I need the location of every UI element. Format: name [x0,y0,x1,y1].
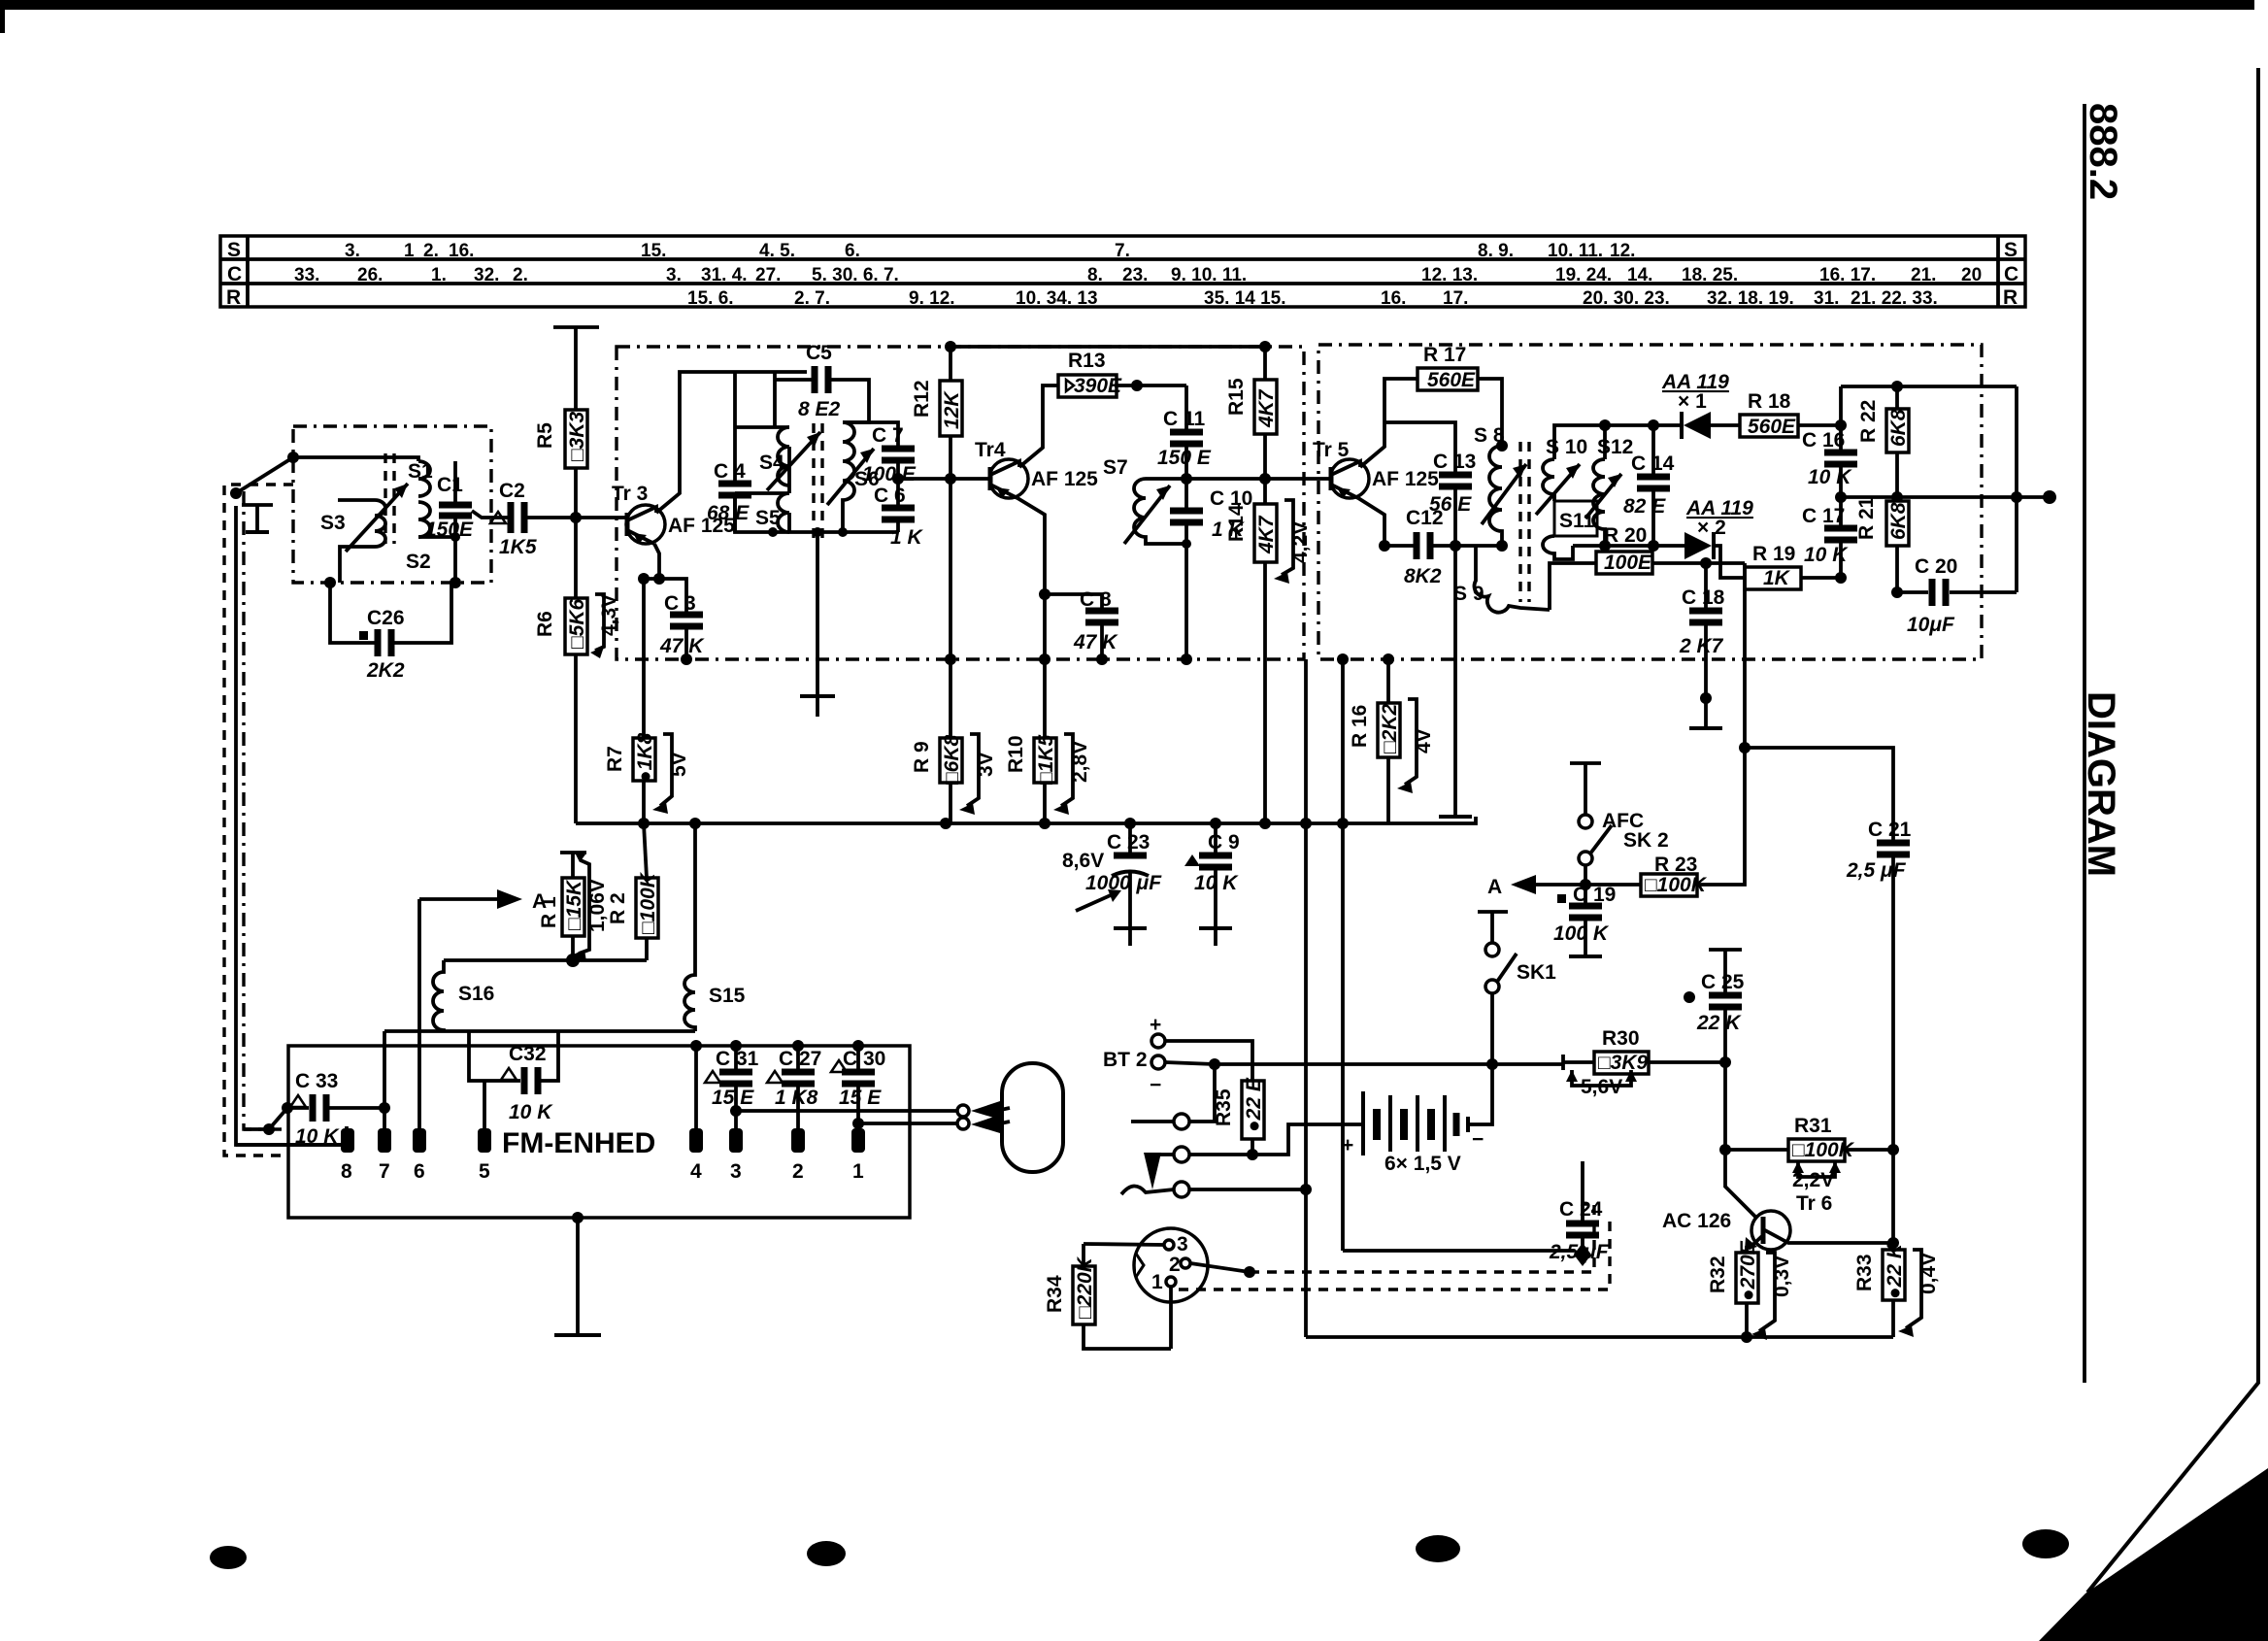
unit pin 3 [729,1128,743,1153]
resistor R31 [1725,1115,1899,1191]
svg-text:2.: 2. [423,241,439,261]
svg-text:22 K: 22 K [1696,1012,1742,1034]
svg-text:●270E: ●270E [1737,1240,1759,1301]
tuner dashed box S1 S3 [293,426,491,583]
svg-text:C 21: C 21 [1868,819,1912,841]
wire chassis to pin 8 [236,1143,341,1147]
right margin line [2083,104,2086,1383]
wire S16 S15 bus [384,1029,695,1033]
svg-text:□2K2: □2K2 [1379,703,1401,754]
svg-text:Tr 5: Tr 5 [1313,439,1350,461]
svg-text:C 23: C 23 [1107,831,1150,854]
svg-text:82 E: 82 E [1623,495,1666,518]
capacitor C27 [767,1046,821,1129]
wire S10 S12 top rail [1554,425,1682,459]
svg-text:SK1: SK1 [1517,961,1556,984]
svg-text:12.: 12. [1610,241,1635,261]
svg-text:C 30: C 30 [843,1048,885,1070]
svg-text:1000 μF: 1000 μF [1085,872,1162,894]
wire tuner bottom junctions [324,577,336,588]
svg-text:S 9: S 9 [1453,583,1484,605]
svg-text:□220K: □220K [1074,1256,1096,1319]
svg-text:4K7: 4K7 [1255,388,1278,428]
svg-text:12. 13.: 12. 13. [1421,265,1478,285]
svg-text:BT 2: BT 2 [1103,1049,1148,1071]
capacitor C11 [1157,385,1212,479]
coil S11 [1543,501,1597,559]
wire C25 node to R31 [1723,1062,1727,1150]
svg-text:9. 12.: 9. 12. [909,288,955,309]
supply line to C24 [1341,823,1345,1251]
svg-text:C 18: C 18 [1682,586,1725,609]
svg-text:S1: S1 [408,460,433,483]
jack terminal 1 [1131,1064,1215,1129]
capacitor C23 electrolytic [1062,823,1162,946]
row R alignment numbers [687,288,1938,309]
svg-text:7.: 7. [1115,241,1130,261]
capacitor C5 [775,342,869,427]
supply drop line right [1341,659,1345,823]
svg-text:0,4V: 0,4V [1918,1253,1940,1294]
capacitor C13 [1384,422,1476,546]
svg-text:A: A [1487,876,1502,898]
bottom-right black corner wedge [2039,1468,2268,1641]
svg-text:Tr 6: Tr 6 [1796,1192,1832,1215]
coil S5 [755,493,789,532]
svg-text:21. 22. 33.: 21. 22. 33. [1851,288,1938,309]
resistor R35 [1213,1077,1265,1160]
row S alignment numbers [345,241,1635,261]
wire C13 ground drop [1453,546,1457,817]
punch hole dot 2 [807,1541,846,1566]
svg-text:R5: R5 [534,422,556,449]
jack terminal 2 with plug [1144,1124,1363,1189]
svg-text:S 10: S 10 [1546,436,1587,458]
svg-text:5,6V: 5,6V [1581,1076,1622,1098]
resistor R2 [607,823,659,960]
svg-text:2. 7.: 2. 7. [794,288,830,309]
wire IF out to Tr5 [1186,477,1331,481]
capacitor C18 [1679,563,1725,728]
resistor R17 [1417,344,1508,452]
svg-text:10μF: 10μF [1907,614,1955,636]
svg-text:S12: S12 [1597,436,1633,458]
svg-text:S7: S7 [1103,456,1128,479]
svg-text:17.: 17. [1443,288,1468,309]
svg-text:100 E: 100 E [862,463,917,486]
svg-text:AF 125: AF 125 [1372,468,1439,490]
svg-text:R 21: R 21 [1855,496,1878,540]
right page edge line [2087,68,2258,1592]
svg-text:S: S [2004,239,2018,261]
wire Tr4 emitter down [1017,498,1045,659]
resistor R6 [534,518,620,823]
transistor Tr3 AF125 [612,483,735,544]
DIN connector [1084,1228,1255,1349]
svg-text:33.: 33. [294,265,319,285]
capacitor C19 [1553,884,1616,956]
svg-text:S3: S3 [320,512,346,534]
svg-text:R 17: R 17 [1423,344,1466,366]
svg-text:R: R [226,286,241,309]
svg-text:1.: 1. [431,265,447,285]
svg-text:DIAGRAM: DIAGRAM [2080,691,2122,877]
trimmer table frame [220,236,2025,307]
resistor R10 [1005,653,1091,823]
svg-text:C 27: C 27 [779,1048,821,1070]
svg-text:21.: 21. [1911,265,1936,285]
svg-text:R 23: R 23 [1654,854,1697,876]
svg-text:1: 1 [852,1160,864,1183]
svg-text:2,8V: 2,8V [1069,741,1091,783]
supply drop line left [1304,659,1308,823]
coil S6 variable [827,422,880,532]
capacitor C12 [1404,507,1499,587]
svg-text:C 8: C 8 [1080,588,1112,611]
svg-text:R: R [2003,286,2018,309]
svg-text:1K5: 1K5 [499,536,537,558]
capacitor C14 [1623,425,1675,546]
svg-text:□5K6: □5K6 [566,598,588,649]
svg-text:S 8: S 8 [1474,424,1505,447]
svg-text:9. 10. 11.: 9. 10. 11. [1171,265,1247,285]
svg-text:Tr4: Tr4 [975,439,1006,461]
svg-text:S5: S5 [755,507,781,529]
resistor R34 [1044,1244,1171,1349]
svg-text:8. 9.: 8. 9. [1478,241,1514,261]
svg-text:10 K: 10 K [509,1101,553,1123]
svg-text:□15K: □15K [563,879,585,930]
svg-text:R7: R7 [604,746,626,772]
svg-text:R15: R15 [1225,378,1248,416]
unit pin 4 [689,1128,703,1153]
svg-text:5. 30. 6. 7.: 5. 30. 6. 7. [812,265,899,285]
svg-text:AC 126: AC 126 [1662,1210,1731,1232]
svg-text:□3K3: □3K3 [566,411,588,461]
capacitor C32 [469,1031,558,1129]
resistor R7 [604,732,690,823]
svg-text:R 2: R 2 [607,892,629,924]
ground rail bottom [1306,1335,1893,1339]
svg-text:560E: 560E [1748,416,1796,438]
svg-text:C 3: C 3 [664,592,696,615]
unit pin 2 [791,1128,805,1153]
svg-text:R 20: R 20 [1604,524,1647,547]
svg-text:C 16: C 16 [1802,429,1845,452]
svg-text:C26: C26 [367,607,405,629]
svg-text:5: 5 [479,1160,490,1183]
svg-text:15.: 15. [641,241,666,261]
svg-text:10. 34. 13: 10. 34. 13 [1016,288,1098,309]
svg-text:AF 125: AF 125 [1031,468,1098,490]
diode AA119 X1 [1661,371,1740,439]
svg-text:C 9: C 9 [1208,831,1240,854]
svg-text:C 20: C 20 [1915,555,1957,578]
svg-text:C 25: C 25 [1701,971,1745,993]
antenna screen dashed enclosure outer [224,485,293,1155]
svg-text:560E: 560E [1427,369,1476,391]
svg-text:6: 6 [414,1160,425,1183]
coil core S8 S10 dashed [1520,442,1529,602]
svg-text:R 18: R 18 [1748,390,1791,413]
svg-text:C 11: C 11 [1163,408,1206,430]
wire Tr4 collector [1019,385,1060,467]
ground center tap [800,532,835,717]
svg-text:56 E: 56 E [1429,493,1472,516]
svg-text:47 K: 47 K [1073,631,1118,653]
speaker connector arrows [957,1101,1010,1133]
svg-text:C: C [227,263,242,285]
svg-text:8 E2: 8 E2 [798,398,841,420]
svg-text:27.: 27. [755,265,781,285]
svg-text:4,2V: 4,2V [1289,521,1312,563]
svg-text:47 K: 47 K [659,635,705,657]
svg-text:31.: 31. [1814,288,1839,309]
coil core S4 S6 dashed [814,423,822,544]
wire speaker line 2 [858,1122,957,1125]
svg-text:S2: S2 [406,551,431,573]
svg-text:●1K8: ●1K8 [634,732,656,783]
switch SK2 AFC [1570,763,1669,885]
resistor R14 [1225,479,1312,823]
capacitor C16 [1802,425,1857,503]
svg-text:1K: 1K [1763,567,1791,589]
coil S3 variable [320,484,408,583]
svg-text:6K8: 6K8 [1887,409,1910,447]
svg-text:888.2: 888.2 [2082,103,2124,200]
svg-text:□3K9: □3K9 [1598,1052,1649,1074]
punch hole dot 4 [2022,1529,2069,1558]
switch SK1 [1478,912,1556,993]
wire S4 left frame [735,427,789,493]
resistor R5 [534,410,588,518]
svg-text:10. 11.: 10. 11. [1548,241,1603,261]
svg-text:1,06V: 1,06V [586,879,609,932]
svg-text:4K7: 4K7 [1255,515,1278,554]
jack terminal 3 with break contact [1121,1182,1312,1197]
svg-text:2K2: 2K2 [366,659,405,682]
svg-text:R30: R30 [1602,1027,1640,1050]
resistor R21 [1855,496,1910,598]
resistor R22 [1841,381,1910,503]
capacitor C6 [874,460,924,549]
left top border sliver [0,0,5,33]
unit pin 7 [378,1128,391,1153]
svg-text:26.: 26. [357,265,383,285]
resistor R13 [1058,350,1186,397]
svg-text:16. 17.: 16. 17. [1819,265,1876,285]
unit pin 1 [851,1128,865,1153]
resistor R33 [1853,1150,1940,1337]
capacitor C1 [425,461,474,541]
wire C2 to Tr3 base [524,516,627,519]
wire S2 C1 bottom to box bottom [418,537,455,583]
capacitor C17 [1802,497,1857,578]
coil S10 variable [1536,436,1587,515]
wire Tr5 collector [1360,379,1417,467]
svg-text:R 16: R 16 [1349,705,1371,748]
detector loop frame [1841,386,2017,592]
svg-text:18. 25.: 18. 25. [1682,265,1738,285]
capacitor C21 [1745,748,1912,1150]
svg-text:× 1: × 1 [1678,390,1707,413]
wire S6 top to C7 [843,422,898,449]
svg-text:R13: R13 [1068,350,1106,372]
svg-text:19. 24.: 19. 24. [1555,265,1612,285]
dashed unit box 1 [617,347,1304,659]
wire main signal C1 to C2 [472,511,509,518]
wire speaker line 1 [736,1109,957,1113]
svg-text:C 33: C 33 [295,1070,338,1092]
capacitor C20 [1897,555,2017,636]
svg-text:4. 5.: 4. 5. [759,241,795,261]
svg-text:C 19: C 19 [1573,884,1616,906]
dashed unit box 2 [1318,345,1982,659]
wire Tr5 emitter [1358,498,1417,546]
punch hole dot 3 [1416,1535,1460,1562]
transistor Tr4 AF125 [975,439,1098,498]
resistor R18 [1740,390,1847,438]
svg-text:1 K8: 1 K8 [775,1087,818,1109]
svg-text:C 14: C 14 [1631,452,1675,475]
svg-text:100 K: 100 K [1553,922,1610,945]
antenna screen dashed enclosure inner [244,491,286,1129]
svg-text:12K: 12K [941,390,963,429]
svg-text:16.: 16. [449,241,474,261]
svg-text:C 6: C 6 [874,485,906,507]
wire S8 bottom to S9 [1384,544,1502,548]
wire R20 junction riser [1743,563,1747,748]
svg-text:C5: C5 [806,342,832,364]
svg-text:C 31: C 31 [716,1048,759,1070]
resistor R23 [1641,748,1745,896]
svg-text:C: C [2004,263,2018,285]
svg-text:C 24: C 24 [1559,1198,1603,1221]
svg-text:C32: C32 [509,1043,547,1065]
svg-text:C1: C1 [437,474,463,496]
svg-text:10 K: 10 K [1194,872,1239,894]
resistor R16 [1349,653,1435,823]
top black border bar [0,0,2254,10]
svg-text:23.: 23. [1122,265,1148,285]
node dot tuner input [287,452,299,463]
svg-text:R10: R10 [1005,735,1027,773]
capacitor C24 [1549,1161,1610,1266]
main negative rail [576,817,1476,823]
svg-text:−: − [1472,1128,1484,1151]
capacitor C3 [659,579,705,665]
capacitor C25 [1684,950,1745,1062]
wire Tr3 emitter down [644,544,659,738]
svg-text:2,2V: 2,2V [1792,1169,1834,1191]
antenna symbol [242,505,273,532]
svg-text:× 2: × 2 [1697,517,1726,539]
svg-text:C2: C2 [499,480,525,502]
svg-text:4V: 4V [1413,728,1435,754]
svg-text:−: − [1150,1074,1161,1096]
svg-text:C 17: C 17 [1802,505,1845,527]
svg-text:R32: R32 [1707,1256,1729,1293]
coil S8 variable [1474,424,1526,552]
svg-text:8: 8 [341,1160,352,1183]
svg-text:6.: 6. [845,241,860,261]
svg-text:3: 3 [1177,1233,1188,1256]
antenna terminal dot [230,487,242,499]
node A arrow [1487,875,1641,898]
resistor R32 [1707,1240,1793,1340]
resistor R30 [1563,1027,1731,1098]
wire tank bottom rail [735,495,898,532]
coil S2 [406,502,431,573]
svg-text:R34: R34 [1044,1275,1066,1313]
capacitor C31 [705,1046,759,1129]
coil S1 [408,460,433,496]
svg-text:100E: 100E [1604,552,1652,574]
svg-text:R33: R33 [1853,1254,1876,1291]
svg-text:6K8: 6K8 [1887,502,1910,540]
svg-text:R 22: R 22 [1857,400,1880,443]
svg-text:SK 2: SK 2 [1623,829,1669,852]
transistor Tr6 AC126 [1662,1150,1899,1251]
svg-text:20: 20 [1961,265,1982,285]
svg-text:1 K: 1 K [890,526,924,549]
row C alignment numbers [294,265,1982,285]
wire pin7 riser [383,1031,386,1129]
capacitor C2 [490,480,537,558]
speaker body [1002,1063,1063,1172]
resistor R19 [1745,543,1847,589]
battery 6x1.5V [1363,992,1492,1175]
svg-text:●22 K: ●22 K [1884,1242,1906,1299]
svg-text:32. 18. 19.: 32. 18. 19. [1707,288,1794,309]
screened cable dashed pair [1179,1204,1610,1289]
node A arrow out [419,889,547,1129]
wire supply to C24 node [1343,1249,1574,1253]
svg-text:3.: 3. [666,265,682,285]
punch hole dot 1 [210,1546,247,1569]
unit pin 5 [478,1128,491,1153]
svg-text:15. 6.: 15. 6. [687,288,734,309]
wire chassis run left [236,506,347,1145]
svg-text:R6: R6 [534,611,556,637]
wire tuner top [293,457,418,461]
svg-text:5V: 5V [668,752,690,777]
svg-text:20. 30. 23.: 20. 30. 23. [1583,288,1670,309]
coil S16 [433,960,494,1031]
svg-text:150 E: 150 E [1157,447,1212,469]
svg-text:15 E: 15 E [712,1087,754,1109]
svg-text:6× 1,5 V: 6× 1,5 V [1384,1153,1461,1175]
transistor Tr5 AF125 [1313,439,1439,498]
svg-text:R14: R14 [1225,504,1248,542]
svg-text:32.: 32. [474,265,499,285]
svg-text:8.: 8. [1087,265,1103,285]
svg-text:10 K: 10 K [1804,544,1849,566]
audio mid rail [1841,495,2050,499]
resistor R15 [1225,341,1278,479]
svg-text:●22 E: ●22 E [1243,1077,1265,1132]
svg-text:C 7: C 7 [872,424,904,447]
unit pin 6 [413,1128,426,1153]
wire pin4 riser [694,1046,698,1129]
svg-text:S4: S4 [759,452,784,474]
wire antenna lead diagonal [236,457,293,493]
supply line to battery plus [1304,823,1308,1337]
svg-text:31. 4.: 31. 4. [701,265,748,285]
coil S4 variable [759,427,820,490]
svg-text:2 K7: 2 K7 [1679,635,1724,657]
resistor R12 [911,341,963,659]
